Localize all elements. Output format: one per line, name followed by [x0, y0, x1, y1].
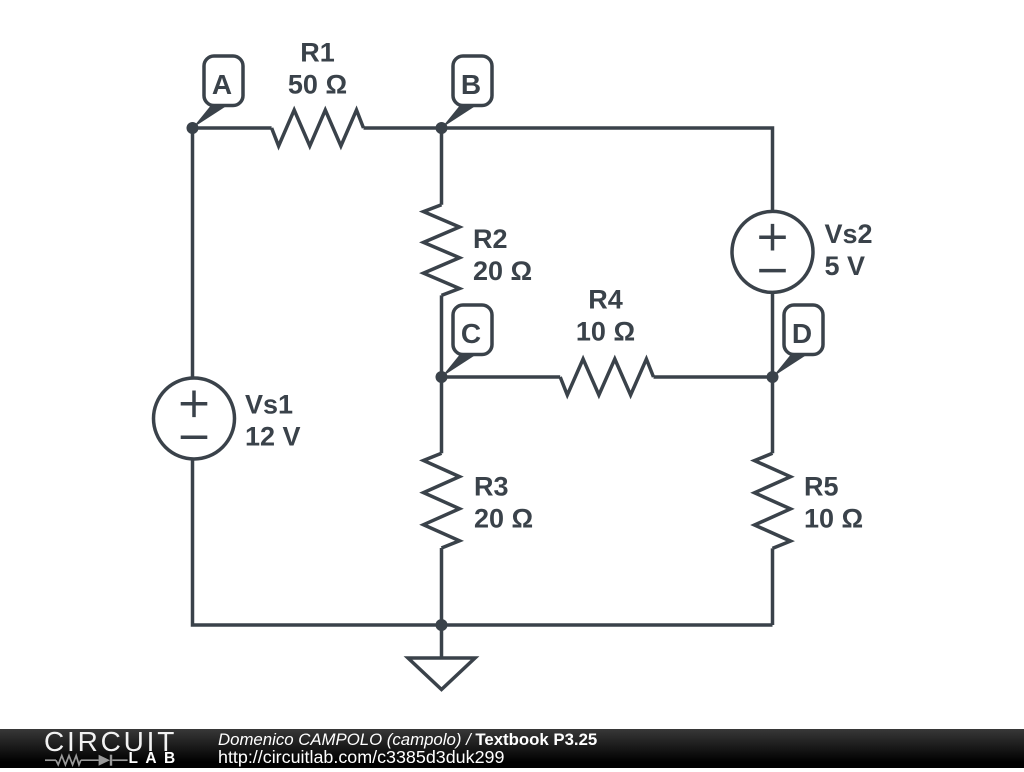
svg-text:R1: R1 [300, 37, 335, 67]
svg-text:5 V: 5 V [825, 251, 866, 281]
svg-text:50 Ω: 50 Ω [288, 69, 347, 99]
svg-text:C: C [461, 318, 481, 349]
svg-text:R4: R4 [588, 284, 623, 314]
svg-text:B: B [461, 69, 481, 100]
svg-text:R2: R2 [473, 224, 508, 254]
svg-text:D: D [792, 318, 812, 349]
svg-text:A: A [212, 69, 232, 100]
svg-text:12 V: 12 V [245, 422, 301, 452]
svg-text:10 Ω: 10 Ω [576, 316, 635, 346]
svg-text:20 Ω: 20 Ω [474, 503, 533, 533]
svg-text:Vs1: Vs1 [245, 390, 293, 420]
svg-text:R5: R5 [804, 471, 839, 501]
svg-text:20 Ω: 20 Ω [473, 256, 532, 286]
svg-text:Vs2: Vs2 [825, 219, 873, 249]
svg-text:R3: R3 [474, 471, 509, 501]
svg-text:10 Ω: 10 Ω [804, 503, 863, 533]
